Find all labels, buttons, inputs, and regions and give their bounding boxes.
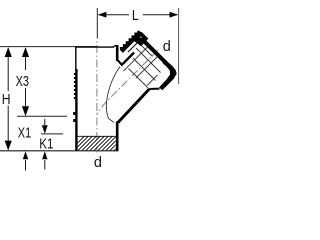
svg-text:K1: K1 <box>39 136 53 152</box>
hatch top line <box>78 135 117 137</box>
body top shoulder <box>75 46 117 48</box>
socket lower wall inner edge <box>147 75 158 86</box>
weld line W3 <box>133 58 156 81</box>
baseline (bottom extension line) <box>0 150 119 152</box>
svg-text:L: L <box>132 8 139 24</box>
seal hatch block <box>68 136 129 153</box>
extension line B (X1 level) <box>17 115 67 117</box>
svg-text:X3: X3 <box>16 74 29 90</box>
centerline vertical (bottom socket axis) <box>96 41 98 153</box>
weld line W4 <box>129 69 149 89</box>
dimension X3 <box>16 47 30 116</box>
dimension L <box>98 8 178 24</box>
socket collar hook (bottom corner) <box>159 61 177 90</box>
dimension K1 bottom arrow <box>42 151 47 169</box>
extension line L left <box>96 8 98 39</box>
socket seal wedge top corner <box>134 32 148 46</box>
socket depth line W2 <box>141 45 153 57</box>
svg-text:X1: X1 <box>18 126 31 142</box>
svg-text:d: d <box>94 155 102 171</box>
dimension X1 bottom arrow <box>23 151 28 170</box>
centerline 45deg (branch axis) <box>97 50 158 114</box>
socket mouth rim <box>141 38 167 64</box>
extension line top (line A) <box>0 46 97 48</box>
body right edge bar (lower/cup) <box>116 122 119 151</box>
socket upper wall (ribbed band) <box>120 31 142 53</box>
body right edge bar (upper) <box>116 45 119 61</box>
body bore arc (inner curve) <box>106 67 120 123</box>
extension line L right <box>178 8 180 84</box>
body left edge thick with ribs <box>73 69 76 151</box>
socket wall inner edge (upper) <box>128 40 140 52</box>
V notch at body/socket junction <box>118 53 134 65</box>
dimension H <box>2 47 12 150</box>
socket inner edge thick segment to V <box>123 53 134 64</box>
body right outline 45deg <box>149 88 159 90</box>
socket bore line (lower, thin) <box>136 56 158 78</box>
svg-text:d: d <box>163 39 171 55</box>
socket end line W1 <box>136 48 161 73</box>
svg-text:H: H <box>2 92 11 108</box>
socket bore line (upper, thin) <box>124 46 150 72</box>
body left edge (thin upper part) <box>75 47 77 70</box>
dimension K1 top arrow <box>42 119 48 134</box>
extension line C (K1 level) <box>41 133 63 135</box>
